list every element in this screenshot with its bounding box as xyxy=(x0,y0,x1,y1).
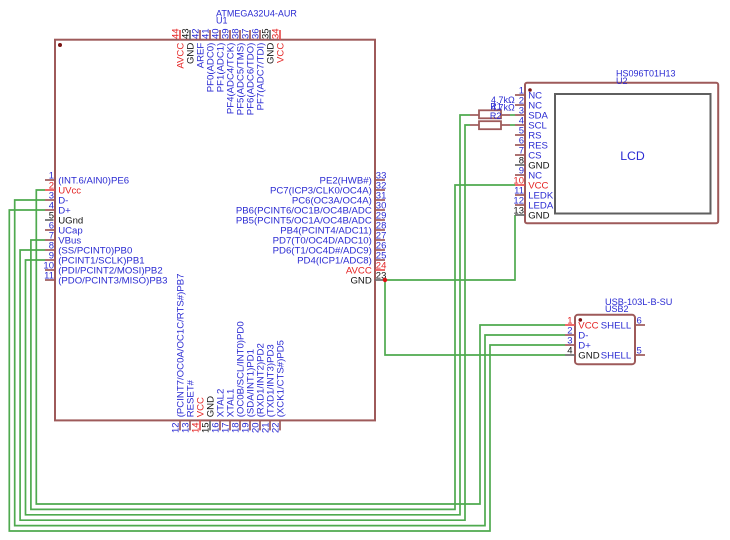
svg-text:GND: GND xyxy=(528,210,549,221)
svg-text:GND: GND xyxy=(350,275,371,286)
svg-text:4: 4 xyxy=(567,345,572,356)
svg-text:R2: R2 xyxy=(490,111,502,121)
svg-text:USB2: USB2 xyxy=(605,304,629,314)
svg-text:GND: GND xyxy=(578,350,599,361)
svg-text:22: 22 xyxy=(270,422,281,433)
svg-text:(XCK1/CTS#)PD5: (XCK1/CTS#)PD5 xyxy=(275,340,286,417)
svg-text:U2: U2 xyxy=(616,76,628,86)
svg-text:VCC: VCC xyxy=(275,43,286,63)
svg-text:13: 13 xyxy=(513,205,524,216)
svg-text:LCD: LCD xyxy=(620,149,645,163)
svg-text:5: 5 xyxy=(637,345,642,356)
svg-text:6: 6 xyxy=(637,315,642,326)
svg-text:11: 11 xyxy=(44,270,54,281)
svg-text:(PDO/PCINT3/MISO)PB3: (PDO/PCINT3/MISO)PB3 xyxy=(58,275,167,286)
svg-text:SHELL: SHELL xyxy=(601,350,632,361)
svg-text:U1: U1 xyxy=(216,16,228,26)
svg-text:SHELL: SHELL xyxy=(601,320,632,331)
svg-text:ATMEGA32U4-AUR: ATMEGA32U4-AUR xyxy=(216,8,297,18)
svg-text:34: 34 xyxy=(270,28,281,39)
